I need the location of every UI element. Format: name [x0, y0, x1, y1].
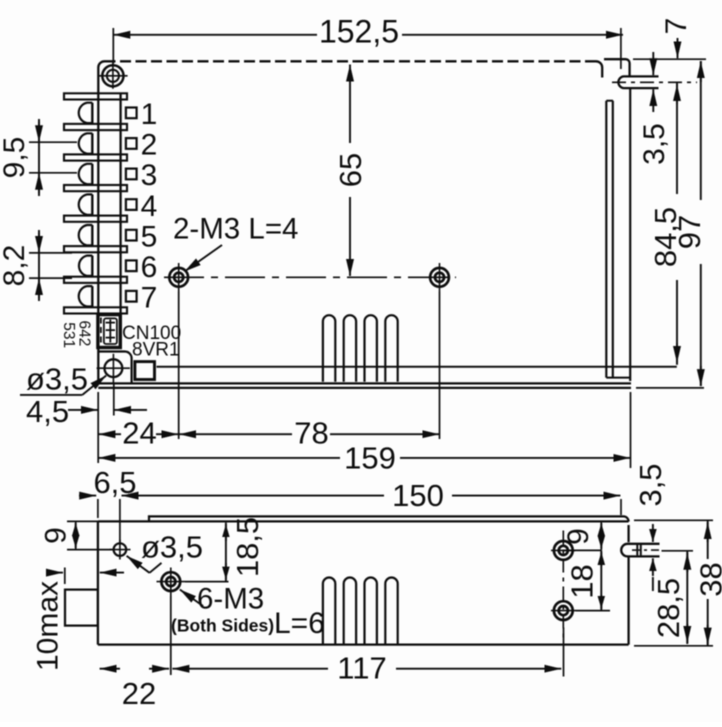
dim 78 — [179, 433, 292, 435]
connector CN100 — [98, 315, 120, 348]
tab center ext line — [662, 550, 694, 552]
svg-text:1: 1 — [141, 98, 158, 131]
terminal body line — [119, 93, 121, 313]
svg-text:65: 65 — [333, 153, 368, 187]
hook center chain line — [612, 81, 697, 83]
svg-text:159: 159 — [344, 440, 396, 475]
dim 9 right — [600, 522, 602, 551]
bracket top edge — [604, 59, 630, 75]
label (Both Sides) L=6 — [171, 607, 325, 640]
svg-text:ø3,5: ø3,5 — [26, 362, 88, 397]
svg-text:9: 9 — [562, 528, 595, 545]
svg-text:150: 150 — [392, 478, 444, 513]
case left edge — [97, 68, 99, 384]
svg-text:22: 22 — [122, 676, 156, 711]
svg-text:6-M3: 6-M3 — [197, 583, 264, 616]
svg-text:4,5: 4,5 — [26, 394, 69, 429]
svg-text:3: 3 — [141, 159, 158, 192]
text CN100 / 8VR1 — [122, 323, 181, 361]
svg-text:4: 4 — [141, 190, 158, 223]
svg-text:9,5: 9,5 — [0, 137, 31, 179]
case top-left corner — [98, 61, 104, 67]
bottom ext line right — [636, 387, 704, 389]
dim 159 — [98, 457, 340, 459]
case top edge dashed — [105, 60, 597, 62]
svg-text:2-M3 L=4: 2-M3 L=4 — [173, 213, 298, 246]
svg-text:8VR1: 8VR1 — [132, 340, 180, 361]
svg-text:18,5: 18,5 — [230, 517, 265, 577]
svg-text:117: 117 — [337, 650, 386, 685]
terminal squares and numbers — [126, 108, 137, 119]
terminal block protrusion side view — [65, 590, 98, 626]
corner mounting hole top-left — [102, 65, 123, 86]
dim 3,5 right bottom view — [652, 577, 654, 591]
trimmer square component — [135, 362, 155, 380]
right tab side view — [621, 544, 659, 557]
label 6-M3 with leader — [197, 583, 264, 616]
dim 117 — [172, 668, 328, 670]
svg-text:6: 6 — [141, 251, 158, 284]
svg-text:24: 24 — [122, 416, 156, 451]
dim 3,5 hook (top view right) — [652, 52, 654, 75]
dim 24 — [98, 433, 121, 435]
dim 18 — [600, 550, 602, 610]
svg-text:642: 642 — [76, 320, 93, 346]
dim 84,5 — [676, 83, 678, 195]
svg-text:10max: 10max — [32, 581, 65, 671]
dim 28,5 — [686, 552, 688, 645]
6-M3 ext lines — [170, 596, 172, 675]
bottom view o3,5 hole — [114, 543, 127, 556]
side rail top view — [605, 101, 607, 378]
vent slots side view — [323, 578, 335, 645]
svg-text:3,5: 3,5 — [633, 463, 668, 506]
svg-text:28,5: 28,5 — [651, 578, 686, 638]
svg-text:L=6: L=6 — [274, 607, 325, 640]
svg-text:3,5: 3,5 — [638, 123, 671, 165]
inner bottom fold line — [157, 366, 677, 368]
right mounting holes side view — [562, 531, 564, 642]
svg-text:97: 97 — [672, 215, 707, 249]
svg-text:ø3,5: ø3,5 — [141, 530, 203, 565]
terminal screws — [79, 103, 93, 123]
top ext line right — [633, 58, 706, 60]
dim 97 — [700, 61, 702, 200]
svg-text:7: 7 — [141, 282, 158, 315]
svg-text:531: 531 — [60, 322, 77, 348]
case top-right corner — [596, 61, 602, 77]
svg-text:5: 5 — [141, 220, 158, 253]
dim 10max — [64, 568, 66, 585]
dim 150 — [122, 495, 385, 497]
dim 7 — [677, 38, 679, 58]
dim 8,2 — [29, 252, 72, 254]
pad hole o3,5 — [105, 359, 123, 377]
svg-text:7: 7 — [660, 18, 693, 35]
vent slots top view — [323, 315, 335, 382]
svg-text:18: 18 — [565, 564, 600, 598]
label o3,5 bottom view — [141, 530, 203, 565]
dim 9 left — [67, 520, 98, 522]
M3 hole right — [430, 268, 449, 287]
svg-text:152,5: 152,5 — [319, 13, 399, 49]
dim 152,5 top — [113, 34, 317, 36]
dim 38 — [707, 521, 709, 559]
ext lines bottom right — [634, 519, 713, 521]
pin labels 642 / 531 — [60, 320, 93, 348]
svg-text:2: 2 — [141, 129, 158, 162]
dim 9,5 — [29, 141, 77, 143]
dim 18,5 — [225, 523, 227, 582]
label 2-M3 L=4 with leader — [173, 213, 298, 246]
case bottom edge double line — [98, 382, 631, 384]
svg-text:9: 9 — [40, 527, 73, 544]
terminal block plates — [64, 93, 127, 99]
svg-text:8,2: 8,2 — [0, 245, 31, 287]
dim 4,5 — [68, 409, 98, 411]
svg-text:78: 78 — [294, 416, 328, 451]
hole ext lines right — [563, 549, 601, 551]
bottom view: dim 6,5 — [79, 495, 96, 497]
svg-text:38: 38 — [694, 562, 722, 596]
hook flange top view — [618, 76, 658, 88]
M3 hole left — [169, 268, 188, 287]
label o3,5 with leader (top view) — [26, 362, 88, 397]
6-M3 hole — [161, 572, 180, 591]
corner pad bottom-left — [98, 352, 131, 384]
svg-text:(Both Sides): (Both Sides) — [171, 616, 274, 636]
dim 22 — [100, 668, 120, 670]
bottom view outline — [97, 521, 99, 644]
ext lines below top view — [178, 292, 180, 440]
dim 65 — [349, 65, 351, 144]
chain line through M3 holes — [164, 276, 456, 278]
